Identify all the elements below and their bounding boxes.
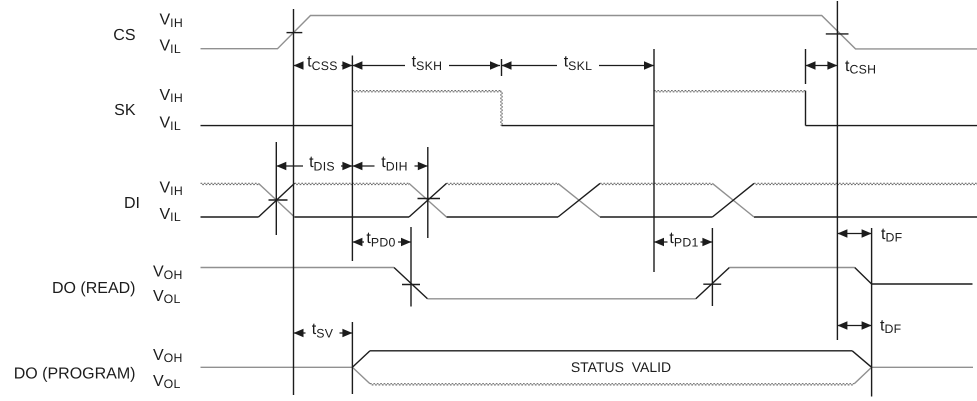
SK high segment 2 (dotted) — [654, 91, 806, 92]
DI crossover A vertical tick — [275, 142, 277, 235]
dimension arrow tDIS — [276, 154, 352, 174]
label VIH of SK — [160, 87, 184, 105]
label VOL of DO READ — [153, 288, 181, 306]
svg-text:VOH: VOH — [153, 347, 183, 365]
svg-text:tDF: tDF — [881, 226, 903, 245]
dimension arrow tSKL — [502, 54, 655, 74]
reference line L1 (CS rise) — [293, 9, 295, 395]
svg-text:tDF: tDF — [880, 318, 902, 337]
label VIL of CS — [160, 38, 182, 56]
svg-text:VIL: VIL — [160, 38, 182, 56]
DO READ high segment 1 — [201, 267, 395, 269]
label VIL of DI — [160, 206, 182, 224]
label VIH of DI — [160, 180, 184, 198]
dimension arrow tPD0 — [352, 230, 411, 250]
dimension arrow tDF lower — [837, 318, 901, 337]
CS rise crossing tick — [287, 32, 303, 34]
reference tick at SK fall 2 — [805, 49, 807, 84]
DO PROGRAM open bottom diagonal — [352, 367, 370, 384]
DI crossover B falling diagonal — [409, 183, 447, 217]
signal name SK — [114, 102, 136, 119]
DI crossover C rising diagonal — [558, 183, 600, 217]
signal name DI — [124, 195, 140, 212]
DI crossover C falling diagonal — [558, 183, 600, 217]
DO READ falling edge — [394, 268, 428, 299]
DO PROGRAM level after close — [872, 366, 973, 368]
svg-text:VIH: VIH — [160, 12, 184, 30]
DO PROGRAM idle level — [201, 366, 353, 368]
svg-text:VOH: VOH — [153, 264, 183, 282]
dimension arrow tSV — [294, 321, 353, 341]
dimension arrow tPD1 — [654, 230, 712, 250]
reference line L6 (CS fall) — [836, 1, 838, 340]
DO PROGRAM top branch — [370, 350, 852, 352]
DO PROGRAM close top diagonal — [852, 351, 871, 368]
reference line L7 (DO turn off) — [871, 228, 873, 397]
reference line L5 (DO READ rise) — [711, 228, 713, 306]
svg-text:tCSH: tCSH — [845, 58, 876, 77]
svg-text:DI: DI — [124, 195, 140, 212]
DO READ fall crossing tick — [402, 284, 420, 286]
SK high segment 1 (dotted) — [352, 91, 501, 92]
SK falling edge 1 (dotted) — [501, 91, 502, 126]
DI high segments (dotted) — [201, 183, 977, 184]
STATUS VALID text — [571, 359, 671, 375]
DI crossover B vertical tick — [427, 147, 429, 238]
dimension arrow tCSH — [806, 58, 877, 77]
DO READ low segment — [428, 298, 696, 300]
svg-text:VIL: VIL — [160, 206, 182, 224]
SK low segment middle — [502, 125, 655, 127]
DI crossover D falling diagonal — [712, 183, 754, 217]
DO READ tri-state level — [872, 283, 973, 285]
svg-text:DO (READ): DO (READ) — [52, 280, 136, 297]
DI crossover A rising diagonal — [259, 183, 295, 217]
svg-text:VIH: VIH — [160, 180, 184, 198]
reference line L4 (SK second rise) — [653, 49, 655, 272]
DO READ high segment 2 — [729, 267, 854, 269]
reference tick at SK fall 1 — [501, 59, 503, 76]
signal name CS — [113, 27, 135, 44]
svg-text:STATUS VALID: STATUS VALID — [571, 359, 671, 375]
signal name DO (READ) — [52, 280, 136, 297]
label VOH of DO READ — [153, 264, 183, 282]
DI crossover A horizontal tick — [269, 199, 288, 201]
dimension arrow tDIH — [352, 154, 427, 174]
DI crossover A falling diagonal — [259, 183, 295, 217]
dimension arrow tDF upper — [837, 226, 902, 245]
SK falling edge 2 — [805, 91, 807, 126]
dimension arrow tSKH — [352, 54, 500, 74]
DI crossover B rising diagonal — [409, 183, 447, 217]
svg-text:VIL: VIL — [160, 115, 182, 133]
dimension arrow tCSS — [294, 54, 353, 74]
DO PROGRAM close bottom diagonal — [854, 367, 871, 384]
label VOH of DO PROGRAM — [153, 347, 183, 365]
label VOL of DO PROGRAM — [153, 373, 181, 391]
SK low segment right — [806, 125, 977, 127]
DO READ turn-off falling edge — [855, 268, 872, 285]
DI low segments — [201, 216, 977, 218]
DI crossover D rising diagonal — [712, 183, 754, 217]
label VIL of SK — [160, 115, 182, 133]
label VIH of CS — [160, 12, 184, 30]
signal name DO (PROGRAM) — [14, 366, 136, 383]
svg-text:CS: CS — [113, 27, 135, 44]
DO READ rising edge — [696, 268, 730, 299]
svg-text:VIH: VIH — [160, 87, 184, 105]
svg-text:DO (PROGRAM): DO (PROGRAM) — [14, 366, 136, 383]
SK low segment left — [201, 125, 353, 127]
svg-text:SK: SK — [114, 102, 136, 119]
DO PROGRAM bottom branch (dotted) — [370, 384, 854, 385]
DO PROGRAM open top diagonal — [352, 351, 370, 368]
reference line L2 upper (SK first rise) — [351, 56, 353, 262]
CS waveform — [201, 16, 977, 49]
DI crossover B horizontal tick — [418, 198, 441, 200]
reference line L3 (DO READ fall) — [410, 227, 412, 307]
svg-text:VOL: VOL — [153, 373, 181, 391]
svg-text:VOL: VOL — [153, 288, 181, 306]
CS fall crossing tick — [826, 33, 849, 35]
reference line L2 lower (status valid open) — [351, 322, 353, 394]
DO READ rise crossing tick — [703, 283, 721, 285]
